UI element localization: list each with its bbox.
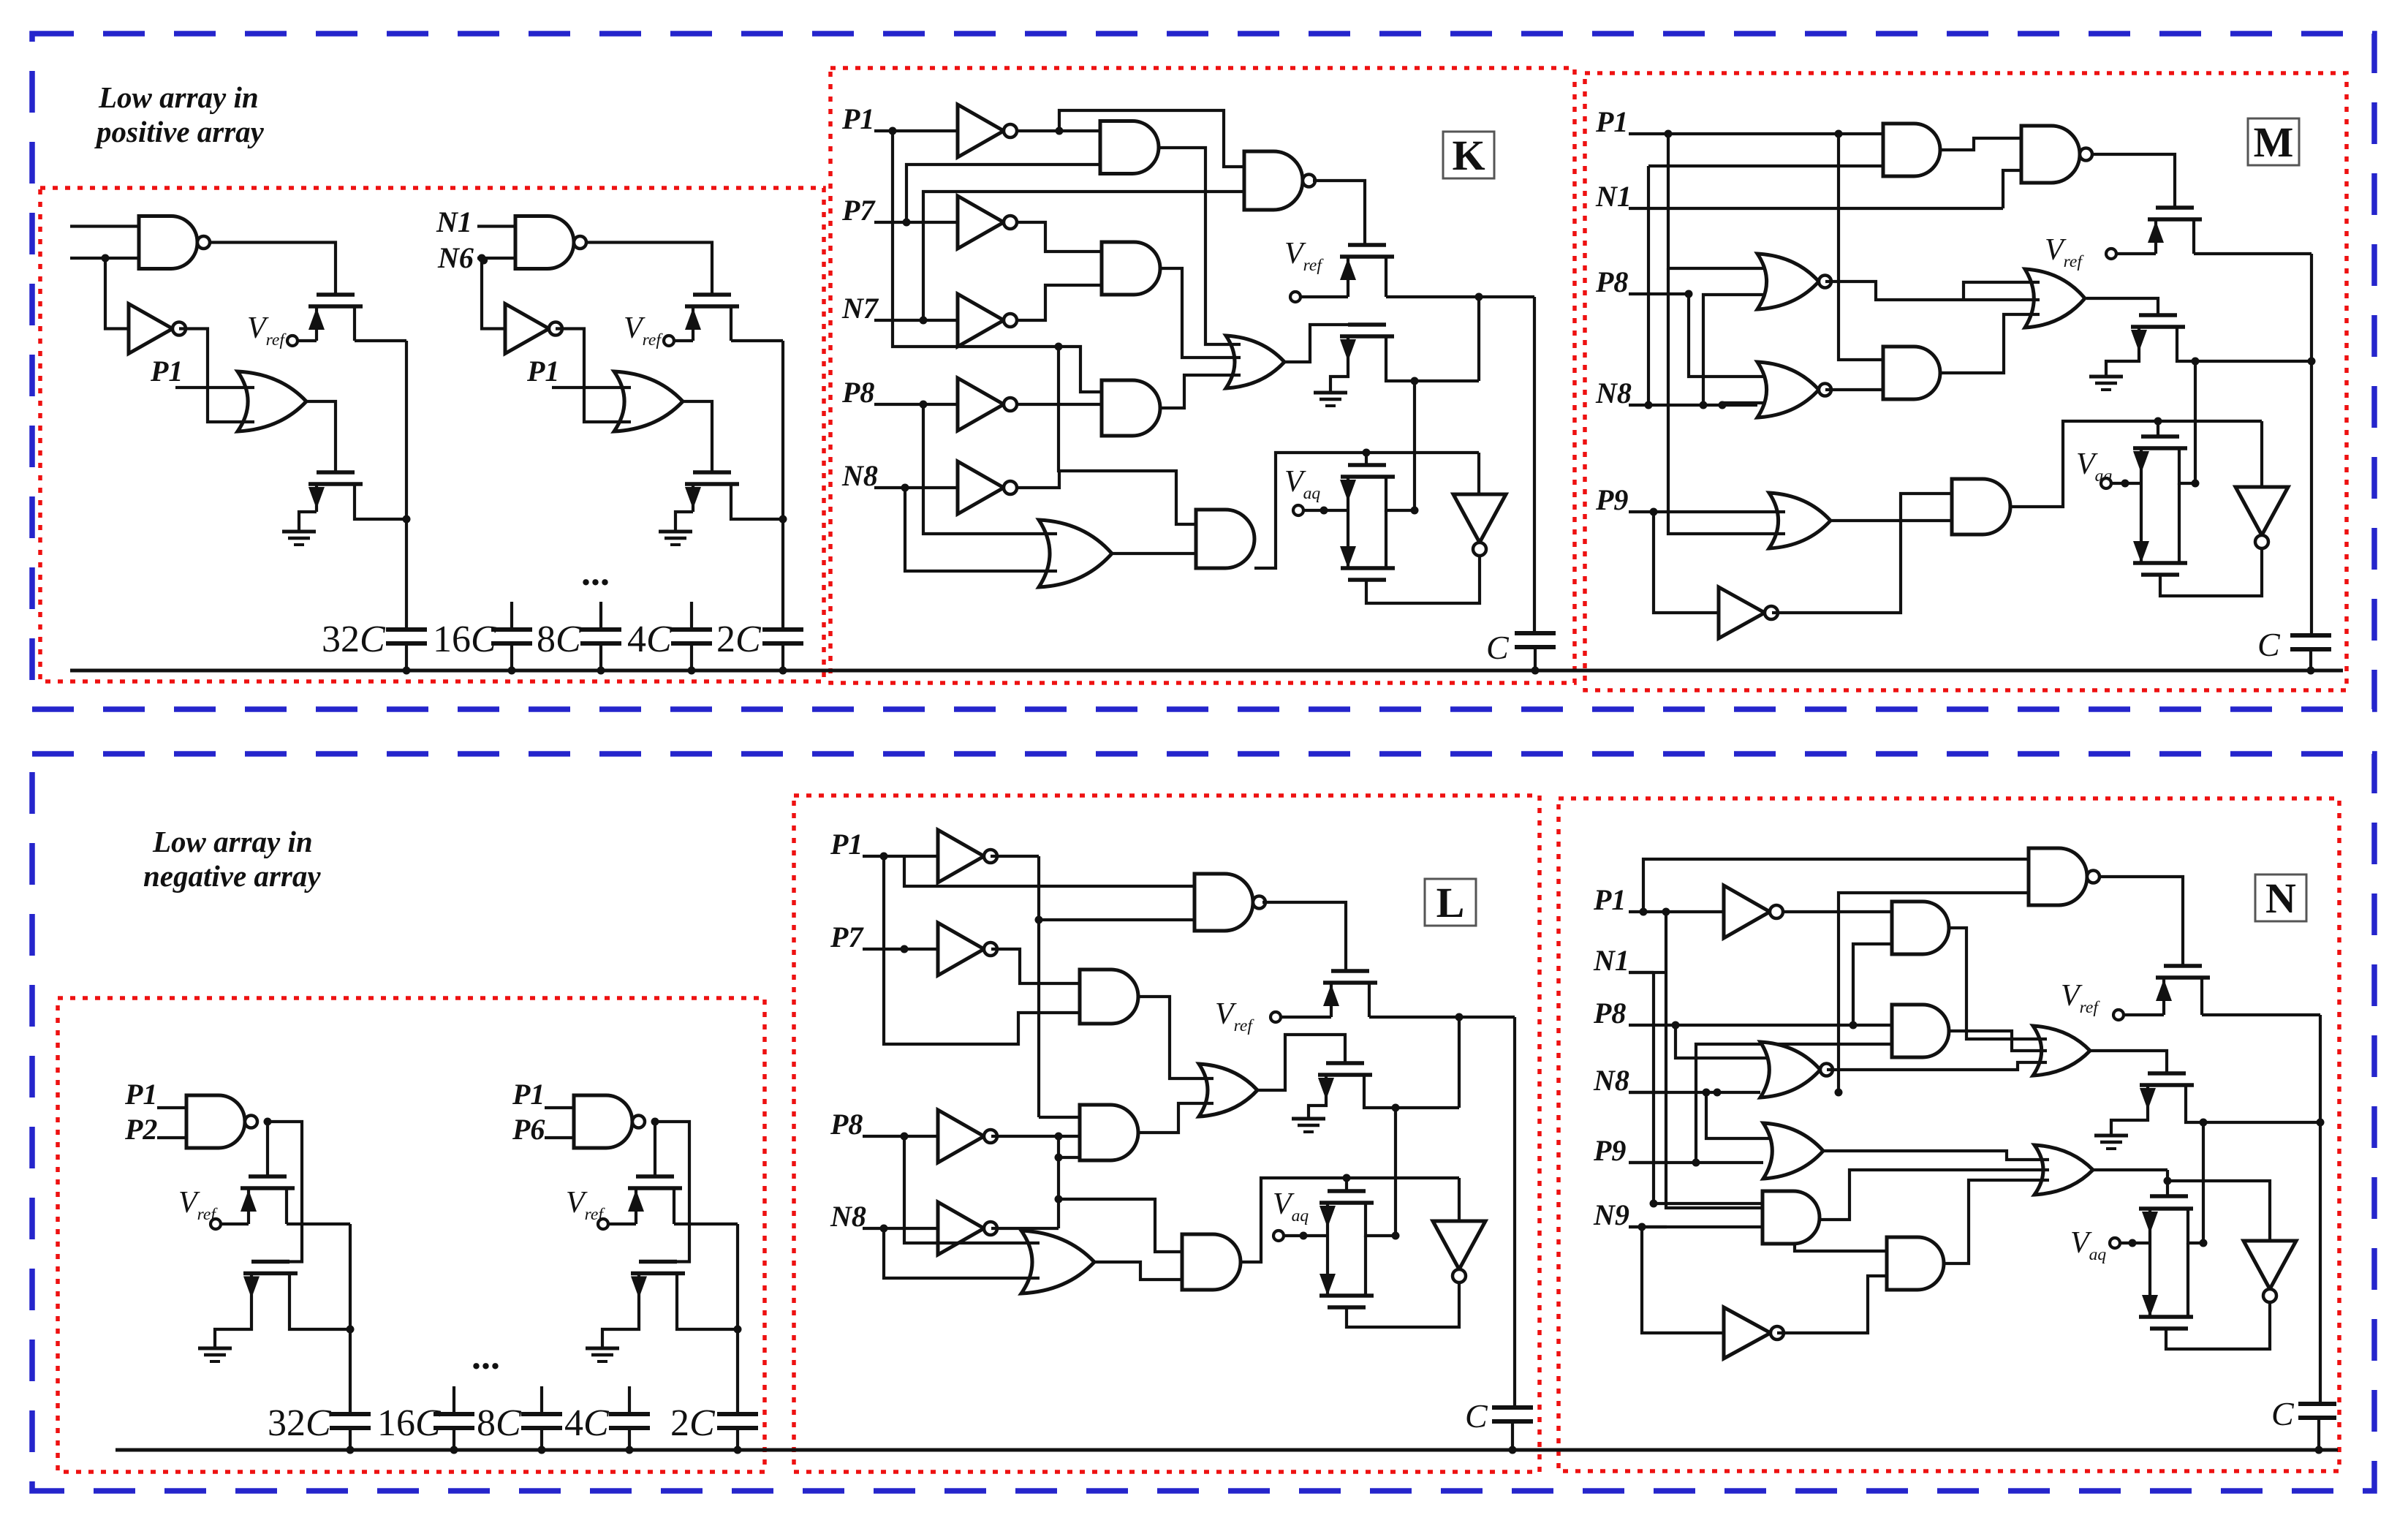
svg-text:2C: 2C [670,1402,716,1444]
or-gate N-O2 [1763,1123,1823,1179]
ground (A-cell2) [659,530,692,534]
node N node on vertical [2317,1119,2325,1127]
capacitor C (M) [2290,633,2331,638]
nmos N-N (discharge) [2148,1071,2186,1076]
node rail-8C (A) [597,667,605,675]
transistor N-TG-top (transmission gate) [2150,1194,2188,1198]
wire: P8 input (K) [874,403,958,406]
wire: cap 16C to rail (A) [510,643,513,670]
nand M-N1 [2021,126,2080,183]
node rail-4C (B) [626,1446,634,1454]
wire: L control to buffer [1458,1178,1461,1221]
wire: cap 8C top stub (B) [540,1386,543,1414]
wire: B-cell1 node vertical [349,1224,352,1414]
capacitor 2C (B) [717,1412,758,1416]
capacitor 8C (A) [580,627,621,632]
wire: B-cell2 nmos drain [677,1301,738,1329]
terminal Vref (A-cell2) [664,336,674,346]
wire: L invP7 out to A1 top [991,949,1080,983]
svg-text:16C: 16C [433,619,497,660]
node L chain tap A2 [1055,1154,1063,1162]
wire: N pmos drain [2202,1013,2320,1016]
wire: M P9 down to inverter [1654,512,1719,613]
node K P8 tap [920,401,928,409]
pmos N-P (Vref switch) [2164,964,2202,968]
inverter N-buf (tgate control) [2244,1241,2296,1289]
wire: N P8 line [1667,1024,1892,1027]
terminal Vref (N) [2113,1010,2124,1020]
inverter L-inv3 (P8) [938,1110,984,1163]
inverter K-buf (tgate control) [1453,494,1506,543]
wire: K N8 to O2 bottom [905,488,1057,571]
wire: N O2 out to O4 top [1823,1151,2049,1160]
or-gate L-O1 [1199,1064,1257,1117]
wire: K O1 out to nmos gate [1284,325,1348,362]
wire: N8 input (N) [1629,1091,1667,1094]
wire: L chain to A3 top [1059,1199,1182,1252]
nand N-N1 [2029,848,2087,905]
svg-text:P8: P8 [1595,265,1628,298]
terminal Vref (L) [1271,1012,1281,1022]
wire: N node B down [2202,1122,2205,1243]
wire: cap 8C top stub (A) [599,602,602,630]
node A-cell1 drain junction [403,515,411,524]
wire: cap 4C top stub (B) [628,1386,631,1414]
svg-text:32C: 32C [322,619,386,660]
wire: N N9 line [1629,1225,1763,1228]
wire: B-cell2 nand out to nmos gate [655,1122,689,1262]
wire: K A3 out to tgate control [1254,453,1479,568]
node rail-32C (B) [347,1446,355,1454]
wire: M vert P1 to NOR1 top [1668,134,1773,268]
wire: A-cell1 pmos drain [355,339,406,342]
wire: B-cell2 nmos source to ground [602,1301,639,1348]
or-gate M-O3 [1769,493,1830,548]
node N tgate right [2200,1239,2208,1247]
wire: N P1 line [1667,910,1724,913]
wire: N ctrl to buffer [2167,1181,2270,1241]
wire: A-cell2 nmos source to ground [675,512,693,532]
svg-text:N8: N8 [830,1200,866,1233]
wire: K nmos drain [1386,369,1479,381]
svg-text:P7: P7 [830,921,864,953]
wire: B-cell2 pmos drain [674,1223,738,1225]
node N P8 tap2 [1849,1021,1858,1029]
wire: M node B down [2194,361,2197,483]
wire: M tgate bottom gate loop [2160,547,2262,596]
wire: A-cell2 or out to nmos gate [683,401,712,472]
wire: N O3 out to nmos gate [2090,1051,2167,1073]
wire: M R2 out to A2 bottom [1825,388,1883,391]
wire: A-cell2 pmos drain [731,339,783,342]
terminal Vref (B-cell1) [211,1219,221,1229]
node K N8 tap [901,484,909,492]
wire: cap 16C top stub (A) [510,602,513,630]
svg-text:N8: N8 [1593,1064,1629,1097]
wire: K N7 to nand bottom [923,192,1244,320]
svg-text:P1: P1 [1593,883,1626,916]
ground (A-cell1) [282,530,316,534]
node rail-4C (A) [688,667,696,675]
wire: L Vref to pmos source [1281,1016,1331,1019]
wire: M nand out to pmos gate [2091,154,2175,208]
wire: L invP8 vertical [1057,1136,1060,1228]
svg-text:P9: P9 [1595,483,1628,516]
wire: A-cell2 inverter input [482,258,505,329]
wire: B-cell2 nand input A [545,1106,574,1109]
wire: B-cell2 nand out to pmos gate [654,1122,656,1176]
wire: L A1 out to O1 top [1140,997,1214,1078]
svg-text:8C: 8C [537,619,582,660]
nand K-N1 [1244,151,1303,210]
wire: M aux O1 top [1964,282,2040,300]
wire: N inv2 out to A6 bottom [1777,1276,1887,1333]
and-gate L-A3 [1182,1234,1241,1290]
node M P8 tap [1685,290,1693,298]
wire: L node A-B link [1458,1017,1461,1108]
wire: M A1 bottom in [1648,165,1883,167]
inverter L-inv1 (P1) [938,830,984,883]
node L drain-B [1392,1104,1400,1112]
wire: cap 16C to rail (B) [453,1428,455,1450]
inverter L-inv4 (N8) [938,1202,984,1255]
wire: K invP1 to nand top [1059,110,1244,167]
wire: M pmos drain [2194,252,2312,255]
wire: cap 32C to rail (B) [349,1428,352,1450]
svg-text:negative array: negative array [143,859,321,893]
ground (L) [1292,1117,1325,1121]
or-gate L-O2 [1021,1231,1094,1293]
nand A-cell11 [139,216,197,269]
wire: K A1 out to O1 top [1159,148,1241,344]
wire: M Vaq to tgate [2111,482,2141,485]
node M tgate right [2192,480,2200,488]
svg-text:...: ... [472,1336,500,1378]
capacitor 4C (A) [671,627,712,632]
wire: N ctrl bend [2166,1170,2169,1196]
or-gate N-O4 (ctrl) [2034,1145,2093,1195]
wire: K pmos drain node [1386,295,1534,298]
wire: A-cell1 nmos drain [355,512,406,519]
transistor M-TG-top (transmission gate) [2141,434,2179,439]
wire: N8 input (K) [874,486,958,489]
svg-text:P1: P1 [841,102,874,135]
terminal Vaq (L) [1273,1231,1284,1241]
wire: A-cell2 output node vertical [781,341,784,630]
pmos B-cell22 [636,1174,674,1179]
wire: A-cell1 nand input B [70,257,139,260]
svg-text:32C: 32C [268,1402,332,1444]
wire: A-cell2 nand input A [477,224,515,227]
wire: K invN8 out stub [1016,471,1059,488]
wire: P8 input (L) [863,1135,938,1138]
wire: M vert N8 to NOR2 bot [1722,403,1773,405]
node L Vaq junction [1300,1232,1308,1240]
and-gate N-A1 [1892,902,1949,954]
svg-text:N1: N1 [436,205,472,238]
wire: cap 2C to rail (B) [736,1428,739,1450]
wire: L invP8 to A2 mid [991,1135,1080,1138]
svg-text:N7: N7 [841,292,879,325]
node N N9 tap [1638,1223,1646,1231]
wire: N A6 out up to O4 bottom [1944,1180,2049,1263]
svg-text:C: C [2257,626,2281,663]
and-gate M-A2 [1883,347,1940,399]
svg-text:P6: P6 [512,1113,545,1146]
wire: cap 4C to rail (B) [628,1428,631,1450]
svg-text:P1: P1 [124,1078,157,1111]
node N Vaq junction [2129,1239,2137,1247]
pmos K-P (Vref switch) [1348,243,1386,247]
svg-text:L: L [1436,879,1465,926]
wire: P1 input (N) [1629,910,1667,913]
red dotted box: block M [1585,73,2347,690]
wire: L invP1 down [1037,856,1040,1117]
node A-cell1 nand-B / inverter tap [102,254,110,262]
node rail-2C (A) [779,667,787,675]
nand A-cell21 [515,216,574,269]
or-gate N-O3 (Vref) [2033,1026,2090,1076]
pmos B-cell12 [249,1174,287,1179]
wire: N N8 up to nand bottom [1839,893,2029,1092]
wire: B-cell2 Vref to pmos source [609,1223,636,1225]
blue dashed outer frame (top section) [32,34,2374,709]
wire: N N1 horiz [1629,971,1654,974]
wire: K A2 out to O1 mid [1160,268,1241,358]
wire: K tgate top gate stem [1365,453,1368,465]
wire: M vert P8 to NOR2 top [1689,294,1773,377]
capacitor C (L) [1492,1405,1533,1410]
wire: B-cell1 Vref to pmos source [222,1223,249,1225]
svg-text:4C: 4C [564,1402,610,1444]
terminal Vaq (K) [1293,505,1303,515]
wire: B-cell1 nand out to nmos gate [268,1122,302,1262]
wire: P8 input (M) [1629,292,1689,295]
and-gate N-A6 [1887,1237,1944,1290]
ground (B-cell1) [198,1347,232,1350]
svg-text:N6: N6 [437,241,474,274]
and-gate M-A3 [1952,479,2010,534]
wire: N P9 up [1696,1044,1892,1163]
terminal Vref (K) [1290,292,1300,302]
node rail-2C (B) [734,1446,742,1454]
wire: N P1 up-over to nand [1643,859,2029,912]
wire: L N8 to O2 bottom [884,1228,1040,1278]
wire: L P8 to O2 top [904,1136,1040,1243]
wire: cap 8C to rail (A) [599,643,602,670]
wire: K Vref to pmos source [1301,295,1348,298]
node M Vaq junction [2121,480,2129,488]
inverter M-inv (P9 path) [1719,587,1765,638]
wire: K nand out to pmos gate [1313,181,1365,245]
node M P1 tap1 [1665,130,1673,138]
inverter N-inv1 (P1) [1724,885,1770,938]
node K tgate right [1411,507,1419,515]
svg-text:N: N [2265,874,2296,922]
wire: K cap C to rail [1534,647,1537,670]
inverter K-inv1 (P1) [958,105,1004,157]
node L cap-rail [1509,1446,1517,1454]
wire: N P9 route [1629,1161,1763,1164]
svg-text:N8: N8 [1595,377,1632,409]
node M P9 tap [1650,508,1658,516]
and-gate N-A2 [1892,1005,1949,1057]
pmos A-cell14 [317,292,355,297]
wire: cap 4C top stub (A) [690,602,693,630]
wire: N nmos source to ground [2111,1119,2148,1136]
wire: L pmos drain [1369,1016,1515,1019]
wire: N nmos drain [2186,1119,2320,1122]
node B-cell1 nand output [264,1118,272,1126]
wire: top common rail [70,669,2343,673]
wire: N R1 out to O3 bottom [1827,1062,2047,1070]
node M P1 tap2 [1835,130,1843,138]
wire: M Vref to pmos source [2116,252,2156,255]
svg-text:C: C [2271,1395,2295,1432]
nmos A-cell15 [317,470,355,475]
node A-cell2 nand-B / inverter tap [478,254,486,262]
wire: N N1 to and6 top [1654,1204,1887,1251]
node rail-16C (B) [450,1446,458,1454]
node N N1 tap [1650,1200,1658,1208]
capacitor C (K) [1515,631,1556,635]
capacitor 4C (B) [609,1412,650,1416]
svg-text:P7: P7 [841,194,876,227]
node N P8 tap [1672,1021,1680,1029]
red dotted box: positive low array [40,188,824,681]
nmos A-cell25 [693,470,731,475]
wire: L P7 low route to A1 bottom [884,856,1080,1044]
wire: L A2 out to O1 bottom [1140,1103,1214,1133]
nor-gate M-R1 [1757,254,1819,309]
block letter M [2248,118,2299,165]
wire: A-cell1 nand out to pmos gate [210,243,336,295]
wire: P7 input (L) [863,948,938,951]
node N P9 tap [1692,1159,1700,1167]
wire: N1 input (M) [1629,207,2003,210]
wire: N O4 out to control [2093,1168,2167,1171]
wire: A-cell1 Vref to pmos source [298,339,317,342]
pmos A-cell24 [693,292,731,297]
node K drain-A [1475,293,1483,301]
wire: K A4 out to O1 bottom [1160,375,1241,408]
wire: A-cell1 nmos source to ground [299,512,317,532]
wire: A-cell2 nand out to pmos gate [586,243,712,295]
node K P1 tap [889,127,897,135]
wire: M inv out to A3 bottom [1772,494,1952,613]
node N P1 tap2 [1662,908,1670,916]
wire: N Vaq to tgate [2120,1242,2150,1244]
ground (N) [2094,1134,2128,1138]
wire: M A2 out to O1 bottom [1940,314,2040,373]
wire: K invN7 to A2 bottom [1016,285,1102,320]
wire: L nand out to pmos gate [1262,902,1346,971]
wire: K Vaq to tgate [1304,509,1348,512]
transistor L-TG-top (transmission gate) [1328,1189,1366,1193]
wire: L invN8 out [991,1227,1059,1230]
node M node on vertical [2308,358,2316,366]
wire: N A2 out to O3 mid [1949,1031,2047,1051]
wire: A-cell2 nmos drain [731,512,783,519]
inverter K-inv2 (P7) [958,196,1004,249]
node K tgate control [1363,449,1371,457]
node N N8 tap2 [1714,1089,1722,1097]
node rail-32C (A) [403,667,411,675]
wire: P1 input (M) [1629,132,1883,135]
node L chain tap A3 [1055,1195,1063,1204]
transistor L-TG-bottom (transmission gate) [1328,1305,1366,1310]
svg-text:P1: P1 [150,355,183,388]
wire: N1 input (N) [1629,971,1667,974]
inverter K-inv4 (P8) [958,378,1004,431]
nand L-N1 [1194,874,1253,931]
svg-text:P1: P1 [830,828,863,861]
svg-text:P8: P8 [830,1108,863,1141]
red dotted box: negative low array [58,998,765,1472]
node rail-8C (B) [538,1446,546,1454]
wire: B-cell1 nand input A [157,1106,186,1109]
or-gate A-cell13 [238,371,306,431]
wire: B-cell1 nmos drain [289,1301,350,1329]
wire: K P1 to A4 top [1059,347,1102,392]
wire: L tgate bottom gate loop [1347,1279,1459,1327]
ground (M) [2089,375,2123,379]
svg-text:4C: 4C [627,619,673,660]
wire: M vert N8 to NOR1 bot [1703,295,1773,405]
node K cap-rail [1531,667,1540,675]
node L invP1 branch [1035,916,1043,924]
red dotted box: block N [1559,798,2339,1471]
wire: L O2 out to A3 bottom [1094,1262,1182,1280]
capacitor 2C (A) [762,627,803,632]
svg-text:P8: P8 [841,376,874,409]
wire: N7 input (K) [874,319,958,322]
and-gate M-A1 [1883,124,1940,176]
wire: L node to cap C [1513,1017,1516,1408]
wire: N nand out to pmos gate [2100,877,2183,966]
terminal Vref (M) [2106,249,2116,259]
wire: P7 input (K) [874,221,958,224]
svg-text:N8: N8 [841,459,878,492]
node L tgate control [1343,1174,1351,1182]
wire: A-cell1 inverter input [105,258,129,329]
wire: N8 input (M) [1629,404,1757,407]
and-gate K-A1 [1100,121,1159,174]
capacitor 32C (A) [386,627,427,632]
wire: N node to cap C [2319,1015,2322,1404]
wire: B-cell1 nmos source to ground [215,1301,251,1348]
wire: K invP8 to A4 bottom [1016,403,1102,406]
svg-text:P1: P1 [526,355,559,388]
wire: K invP1 out [1016,129,1100,132]
wire: M vert A1-bottom to N8 [1647,166,1650,405]
node L invP8 tap [1055,1133,1063,1141]
inverter A-cell12 [129,304,173,354]
wire: A-cell1 nand input A [70,224,139,227]
nor-gate M-R2 [1757,362,1819,418]
wire: N Vref to pmos source [2124,1013,2164,1016]
wire: K P7 to A1 bottom [906,165,1100,222]
inverter L-buf (tgate control) [1433,1221,1485,1269]
svg-text:C: C [1486,629,1510,666]
wire: bottom common rail [116,1448,2338,1452]
wire: N N9 down to inv [1642,1227,1724,1333]
node M N8-2255 [1645,401,1653,409]
wire: A-cell2 or input P1 [552,386,631,389]
node N N8 tap1 [1703,1089,1711,1097]
svg-text:P1: P1 [512,1078,545,1111]
node K P1-dist junction [1055,343,1063,351]
